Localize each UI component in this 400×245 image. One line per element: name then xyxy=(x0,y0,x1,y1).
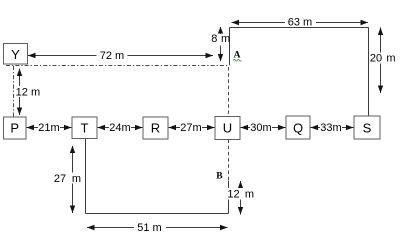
box U xyxy=(215,117,240,140)
box R xyxy=(143,117,168,139)
box Q xyxy=(286,116,310,139)
dimension 20 m (right side) xyxy=(370,28,398,94)
svg-text:R: R xyxy=(151,121,160,136)
dashed vertical A to U xyxy=(228,67,230,116)
dashed vertical U to B xyxy=(228,140,230,181)
svg-text:m: m xyxy=(245,188,254,200)
dimension arrow 30m (U-Q) xyxy=(241,121,286,134)
svg-text:27m: 27m xyxy=(180,122,201,134)
svg-text:51 m: 51 m xyxy=(137,222,161,234)
svg-text:27: 27 xyxy=(54,173,66,185)
svg-text:21m: 21m xyxy=(38,122,59,134)
dimension 27 m (left vertical) xyxy=(54,146,84,214)
svg-text:P: P xyxy=(10,121,19,136)
svg-text:m: m xyxy=(31,86,40,98)
node A xyxy=(233,51,241,62)
building top edge xyxy=(230,27,369,29)
dash-dot vertical line (to P) xyxy=(13,66,15,117)
svg-text:12: 12 xyxy=(16,86,28,98)
wire bottom horizontal xyxy=(86,213,229,215)
svg-text:8: 8 xyxy=(211,33,217,45)
svg-text:33m: 33m xyxy=(320,122,341,134)
dimension arrow 63 m (top) xyxy=(232,17,369,29)
building left edge (solid, corner to A) xyxy=(229,28,231,66)
dimension arrow 24m (T-R) xyxy=(98,121,143,134)
svg-text:24m: 24m xyxy=(109,122,130,134)
dimension arrow 72 m (Y to A line) xyxy=(28,49,213,62)
svg-text:Y: Y xyxy=(11,47,20,62)
svg-text:m: m xyxy=(72,173,81,185)
wire T down xyxy=(85,139,87,214)
dimension arrow 27m (R-U) xyxy=(169,121,215,134)
dimension 12 m (right of B) xyxy=(227,181,256,215)
dimension 12 m (left) xyxy=(16,69,42,116)
svg-text:m: m xyxy=(221,33,230,45)
box P xyxy=(4,117,27,139)
box Y xyxy=(4,44,28,65)
label 8 m xyxy=(210,33,231,45)
svg-text:m: m xyxy=(386,53,395,65)
dimension 8 m (upper arrow) xyxy=(218,27,223,34)
dimension arrow 33m (Q-S) xyxy=(311,121,354,134)
svg-text:30m: 30m xyxy=(250,122,271,134)
box S xyxy=(354,116,380,139)
dash-dot horizontal line (Y/A level) xyxy=(6,65,230,67)
svg-text:20: 20 xyxy=(370,53,382,65)
svg-text:Q: Q xyxy=(293,121,303,136)
svg-text:B: B xyxy=(216,172,223,182)
svg-text:T: T xyxy=(81,121,89,136)
svg-text:63 m: 63 m xyxy=(288,17,312,29)
svg-text:72 m: 72 m xyxy=(100,50,124,62)
building right edge (corner down to S) xyxy=(368,28,370,117)
svg-text:U: U xyxy=(223,121,232,136)
wire B down xyxy=(228,181,230,214)
svg-text:S: S xyxy=(363,121,372,136)
box T xyxy=(72,117,97,139)
svg-text:12: 12 xyxy=(227,188,239,200)
dimension arrow 51 m (bottom) xyxy=(87,221,228,235)
dimension arrow 21m (P-T) xyxy=(27,121,72,134)
dimension 8 m (lower arrow) xyxy=(218,46,223,62)
